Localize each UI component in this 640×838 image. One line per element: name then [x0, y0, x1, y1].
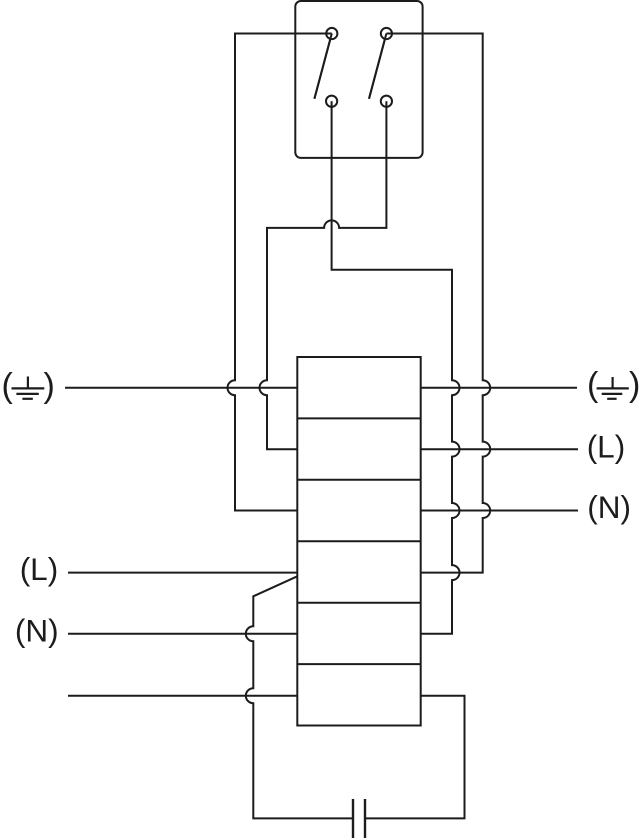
- svg-text:(L): (L): [20, 551, 59, 587]
- svg-text:(: (: [2, 367, 14, 405]
- svg-text:): ): [629, 366, 640, 404]
- svg-text:(: (: [587, 366, 599, 404]
- svg-text:): ): [44, 367, 55, 405]
- svg-text:(N): (N): [587, 489, 631, 525]
- svg-text:(L): (L): [587, 429, 626, 465]
- svg-text:(N): (N): [15, 613, 59, 649]
